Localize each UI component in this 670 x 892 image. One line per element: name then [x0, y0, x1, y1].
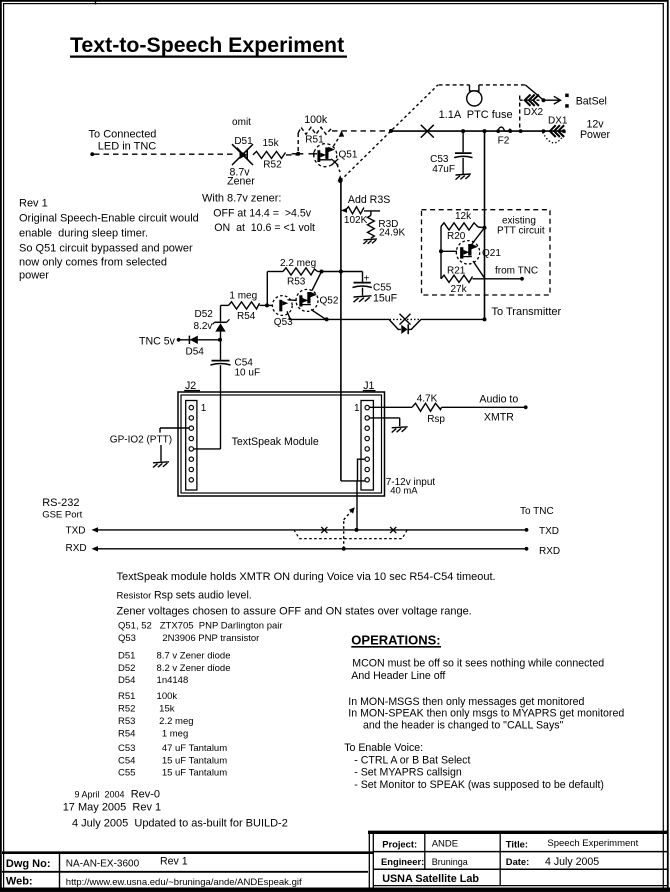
svg-text:D52 8.2 v Zener diode: D52 8.2 v Zener diode [118, 663, 230, 674]
svg-text:D52: D52 [195, 309, 214, 320]
ground C53 [456, 174, 471, 180]
table bottom-left frame [2, 853, 374, 889]
connector J1 box [361, 401, 373, 491]
node from TNC dot [520, 277, 524, 281]
svg-text:Q51: Q51 [339, 149, 358, 160]
svg-text:To Transmitter: To Transmitter [492, 306, 562, 318]
diode bypass under transmitter rail [389, 319, 421, 334]
node BatSel contact squares [565, 94, 569, 98]
node junction DX2 tap [519, 129, 523, 133]
wire audio out [442, 406, 526, 408]
svg-text:D51: D51 [234, 136, 253, 147]
wire GP-IO2 ground lead [160, 445, 162, 462]
node junction Q52/Q53 emitters [325, 317, 329, 321]
svg-text:GP-IO2 (PTT): GP-IO2 (PTT) [110, 435, 172, 446]
capacitor C55 [353, 272, 372, 296]
note operations text [344, 658, 624, 791]
svg-text:DX1: DX1 [548, 116, 568, 127]
svg-text:With 8.7v zener:: With 8.7v zener: [202, 193, 281, 205]
svg-text:Zener voltages chosen to assur: Zener voltages chosen to assure OFF and … [117, 606, 472, 618]
wire To Transmitter rail [289, 318, 485, 320]
svg-text:So Q51 circuit bypassed and po: So Q51 circuit bypassed and power [19, 242, 193, 254]
svg-text:4.7K: 4.7K [417, 393, 438, 404]
svg-text:R52: R52 [263, 160, 282, 171]
resistor R3D vertical [368, 215, 375, 238]
wire dashed LED line left segment [94, 153, 233, 155]
label To Connected LED in TNC [89, 129, 157, 153]
svg-text:1: 1 [201, 403, 207, 414]
fuse F2 [496, 127, 512, 133]
svg-text:TNC 5v: TNC 5v [139, 335, 176, 347]
svg-text:OPERATIONS:: OPERATIONS: [351, 632, 440, 647]
svg-text:C55 15 uF Tantalum: C55 15 uF Tantalum [118, 768, 227, 779]
resistor R21 27k [441, 251, 522, 282]
svg-text:To Enable Voice:: To Enable Voice: [344, 742, 423, 754]
wire TXD rail [92, 527, 527, 532]
wire pin2 ground lead [370, 418, 400, 426]
svg-text:TextSpeak Module: TextSpeak Module [232, 436, 319, 448]
node junction R51/wire [296, 152, 300, 156]
wire Q21 base lead [441, 250, 457, 252]
label J1 [363, 380, 376, 392]
ground J1 pin2 [392, 427, 408, 433]
wire pin1 audio lead [370, 406, 413, 408]
node junction R53 right [320, 270, 324, 274]
svg-text:R54: R54 [237, 311, 256, 322]
svg-text:12k: 12k [455, 211, 472, 222]
svg-text:100k: 100k [304, 114, 328, 126]
node dot at diagonal bottom [338, 179, 342, 183]
svg-text:47uF: 47uF [432, 164, 455, 175]
svg-text:from TNC: from TNC [495, 265, 538, 276]
svg-text:Dwg No:: Dwg No: [6, 858, 51, 870]
wire BatSel arrow [545, 96, 561, 104]
svg-text:Web:: Web: [6, 876, 33, 888]
svg-text:and the header is changed to ": and the header is changed to "CALL Says" [363, 720, 564, 732]
svg-text:Zener: Zener [227, 176, 255, 188]
svg-text:Q53 2N3906 PNP transi: Q53 2N3906 PNP transistor [118, 633, 259, 644]
svg-text:To Connected: To Connected [89, 129, 157, 141]
svg-text:15k: 15k [263, 138, 280, 149]
svg-text:TextSpeak module holds XMTR ON: TextSpeak module holds XMTR ON during Vo… [117, 571, 496, 583]
resistor R54 1 meg [221, 302, 268, 309]
svg-text:Q52: Q52 [320, 296, 339, 307]
node audio end dot [524, 405, 528, 409]
diode DX1 chevrons [550, 125, 564, 137]
diode D54 [189, 336, 197, 344]
svg-text:D54 1n4148: D54 1n4148 [118, 675, 188, 686]
svg-text:1.1A PTC fuse: 1.1A PTC fuse [439, 109, 513, 121]
svg-text:now only comes from selected: now only comes from selected [19, 257, 167, 269]
node junction R54/R53 [265, 303, 269, 307]
capacitor C53 [454, 131, 472, 174]
node TXD right end [525, 528, 529, 532]
svg-text:R21: R21 [447, 265, 466, 276]
svg-text:LED in TNC: LED in TNC [98, 141, 157, 153]
node junction main vertical [483, 129, 487, 133]
node BatSel junction dot [542, 98, 546, 102]
svg-text:Speech Experimment: Speech Experimment [547, 838, 638, 849]
tick mark top border [95, 0, 97, 5]
svg-text:- Set MYAPRS callsign: - Set MYAPRS callsign [351, 766, 462, 778]
wire R53 to power line [322, 271, 363, 273]
wire diagonal rail to BatSel node [525, 85, 543, 100]
svg-text:Project:: Project: [382, 838, 417, 849]
svg-text:R20: R20 [447, 231, 466, 242]
svg-text:Title:: Title: [506, 839, 528, 850]
label OPERATIONS heading [351, 632, 441, 647]
svg-text:R51 100k: R51 100k [118, 691, 177, 702]
wire dashed diagonal bypass Q51 to top rail [341, 85, 439, 181]
node wire end dot 12v [562, 129, 566, 133]
connector J1 pins [365, 405, 369, 482]
svg-text:15uF: 15uF [373, 293, 398, 305]
wire Q51 collector dashed stub [334, 137, 340, 147]
fuse PTC 1.1A [467, 85, 482, 106]
note revision dates [63, 789, 288, 830]
diode D52 zener 8.2v [213, 305, 230, 359]
svg-text:USNA Satellite Lab: USNA Satellite Lab [382, 873, 479, 885]
wire down to TXD [356, 481, 358, 530]
svg-text:BatSel: BatSel [576, 95, 607, 107]
table title block frame [368, 832, 667, 889]
svg-text:24.9K: 24.9K [379, 228, 405, 239]
note component list [118, 620, 283, 778]
svg-text:1: 1 [354, 403, 360, 414]
node junction Q21 base [439, 249, 443, 253]
ground C55 [354, 296, 372, 302]
node junction R20 top rail [483, 226, 487, 230]
transistor Q21 darlington [456, 228, 484, 278]
svg-text:Q53: Q53 [274, 317, 293, 328]
capacitor C54 [211, 361, 231, 450]
node junction power line x341 [339, 270, 343, 274]
svg-text:R53 2.2 meg: R53 2.2 meg [118, 716, 194, 727]
resistor R20 12k [441, 223, 485, 252]
transistor Q53 [272, 296, 296, 320]
X mark TXD right [390, 527, 396, 533]
node TXD junction [355, 528, 359, 532]
potentiometer R3S 102K [341, 207, 380, 216]
wire solid main top rail [391, 130, 565, 132]
X omit mark on transmitter rail [400, 314, 411, 325]
svg-text:In MON-SPEAK then only msgs to: In MON-SPEAK then only msgs to MYAPRS ge… [348, 708, 624, 720]
ground GP-IO2 [153, 462, 169, 468]
svg-text:102K: 102K [344, 215, 368, 226]
svg-text:enable during sleep timer.: enable during sleep timer. [19, 228, 148, 240]
wire R53 left vertical [266, 272, 268, 306]
note Rev 1 paragraph [19, 197, 199, 281]
svg-text:Original Speech-Enable circuit: Original Speech-Enable circuit would [19, 213, 199, 225]
svg-text:TXD: TXD [66, 525, 86, 536]
svg-text:Q21: Q21 [482, 248, 501, 259]
svg-text:R54 1 meg: R54 1 meg [118, 728, 188, 739]
box TextSpeak module outer [178, 392, 385, 496]
node RXD right end [525, 547, 529, 551]
svg-text:1 meg: 1 meg [229, 290, 257, 301]
wire main vertical from Q51 down to J1 [340, 181, 342, 481]
note With 8.7v zener [202, 193, 315, 234]
svg-text:F2: F2 [498, 136, 510, 147]
box TextSpeak module inner [181, 395, 382, 493]
svg-text:DX2: DX2 [524, 107, 544, 118]
svg-text:C53 47 uF Tantalum: C53 47 uF Tantalum [118, 743, 227, 754]
bottom thick border [0, 888, 670, 892]
svg-text:R53: R53 [287, 276, 306, 287]
transistor Q52 darlington [296, 273, 326, 320]
svg-text:And Header Line off: And Header Line off [351, 670, 445, 682]
node RXD tap dot [342, 547, 346, 551]
node junction diagonal/horizontal [389, 129, 393, 133]
svg-text:Bruninga: Bruninga [432, 857, 468, 867]
svg-text:MCON must be off so it sees no: MCON must be off so it sees nothing whil… [352, 658, 604, 670]
svg-text:+: + [364, 274, 370, 285]
wire base lead Q53 [267, 304, 273, 306]
diode DX2 chevrons [525, 95, 539, 106]
svg-text:27k: 27k [451, 284, 468, 295]
svg-text:- CTRL A or B Bat Select: - CTRL A or B Bat Select [351, 754, 470, 766]
wire dashed between D51 and R52 [286, 154, 298, 156]
svg-text:10 uF: 10 uF [235, 367, 261, 378]
svg-text:Resistor: Resistor [117, 591, 152, 602]
svg-text:Add R3S: Add R3S [348, 194, 390, 206]
title [70, 33, 347, 57]
label J2 [184, 380, 200, 392]
node junction D52/C54 [218, 338, 222, 342]
X omit mark on rail [421, 125, 434, 138]
svg-text:2.2 meg: 2.2 meg [280, 258, 316, 269]
wire Q51 emitter dashed stub [337, 165, 340, 173]
svg-text:Power: Power [580, 129, 610, 141]
svg-text:Date:: Date: [506, 856, 529, 867]
svg-text:To TNC: To TNC [520, 506, 554, 517]
svg-text:17 May 2005 Rev 1: 17 May 2005 Rev 1 [63, 802, 161, 814]
svg-text:Text-to-Speech Experiment: Text-to-Speech Experiment [70, 33, 344, 57]
svg-text:Engineer:: Engineer: [381, 856, 424, 867]
svg-text:8.2v: 8.2v [194, 321, 213, 332]
wire main vertical power line down to PTT [484, 131, 486, 319]
resistor R51 (dashed) [298, 127, 331, 151]
svg-text:ON at 10.6 = <1 volt: ON at 10.6 = <1 volt [214, 222, 315, 234]
node TNC 5v dot [177, 338, 181, 342]
diode D51 (crossed out, omit) [232, 144, 253, 165]
wire dashed top PTC rail [439, 84, 470, 86]
wire dashed horizontal y=131 from R51 to junction [332, 130, 390, 132]
wire dashed TXD detour [294, 530, 407, 539]
wire GP-IO2 pin3 lead [160, 428, 189, 433]
svg-text:C54 15 uF Tantalum: C54 15 uF Tantalum [118, 755, 227, 766]
svg-text:RXD: RXD [66, 543, 87, 554]
label 12v Power [580, 119, 610, 141]
svg-text:- Set Monitor to SPEAK (was su: - Set Monitor to SPEAK (was supposed to … [351, 779, 604, 791]
resistor R52 [253, 151, 286, 158]
svg-text:XMTR: XMTR [484, 412, 514, 424]
svg-text:Rev 1: Rev 1 [160, 856, 188, 868]
svg-text:Rsp: Rsp [427, 414, 445, 425]
svg-text:9 April 2004: 9 April 2004 [72, 789, 125, 799]
connector J2 pins [189, 405, 193, 482]
svg-text:omit: omit [232, 117, 251, 128]
resistor Rsp 4.7K [412, 403, 442, 411]
svg-text:GSE Port: GSE Port [42, 509, 82, 520]
svg-text:Audio to: Audio to [479, 394, 518, 406]
transistor Q51 (dashed circle darlington) [314, 144, 339, 167]
svg-text:R52 15k: R52 15k [118, 703, 175, 714]
svg-text:PTT circuit: PTT circuit [497, 225, 545, 236]
svg-text:R51: R51 [305, 134, 324, 145]
svg-text:OFF at 14.4 = >4.5v: OFF at 14.4 = >4.5v [213, 208, 311, 220]
svg-text:D54: D54 [186, 347, 205, 358]
svg-text:TXD: TXD [539, 526, 559, 537]
svg-text:RS-232: RS-232 [42, 497, 79, 509]
wire dashed RXD to module [344, 507, 355, 549]
svg-text:Q51, 52 ZTX705 PNP Darlingt: Q51, 52 ZTX705 PNP Darlington pair [118, 620, 283, 631]
X mark TXD left [321, 527, 327, 533]
wire emitter lead into Q51 [292, 153, 304, 155]
svg-text:power: power [19, 270, 49, 282]
svg-text:RXD: RXD [539, 546, 560, 557]
svg-text:Rsp sets audio level.: Rsp sets audio level. [154, 590, 252, 602]
wire power to pin8 [341, 480, 365, 482]
node LED wire end dot [90, 152, 94, 156]
note timeout lines [117, 571, 496, 618]
wire dotted arc under DX1 [543, 132, 566, 143]
svg-text:NA-AN-EX-3600: NA-AN-EX-3600 [66, 858, 140, 869]
svg-text:Rev 1: Rev 1 [19, 197, 48, 209]
svg-text:D51 8.7 v Zener diode: D51 8.7 v Zener diode [118, 651, 230, 662]
ground R3D [363, 239, 377, 244]
wire TNC 5v to D52 line [179, 339, 221, 341]
wire pin5 to C54 [193, 448, 221, 450]
wire pin6-pin8 bracket [358, 459, 366, 481]
wire RXD rail [92, 546, 527, 551]
connector J2 box [186, 401, 197, 491]
node DX1 left dot [542, 129, 546, 133]
box existing PTT circuit (dashed) [422, 210, 551, 295]
svg-text:40 mA: 40 mA [390, 486, 418, 497]
svg-text:4 July 2005 Updated to as-bui: 4 July 2005 Updated to as-built for BUIL… [72, 817, 288, 829]
svg-text:In MON-MSGS then only messages: In MON-MSGS then only messages get monit… [348, 696, 584, 708]
svg-text:Rev-0: Rev-0 [131, 789, 160, 801]
svg-text:ANDE: ANDE [432, 839, 458, 850]
resistor R53 2.2 meg [267, 268, 321, 275]
wire dashed DX2 branch [520, 96, 541, 131]
svg-text:http://www.ew.usna.edu/~brunin: http://www.ew.usna.edu/~bruninga/ande/AN… [66, 877, 302, 888]
node junction To Transmitter end [483, 317, 487, 321]
node junction C53 [461, 129, 465, 133]
svg-text:4 July 2005: 4 July 2005 [545, 856, 599, 868]
